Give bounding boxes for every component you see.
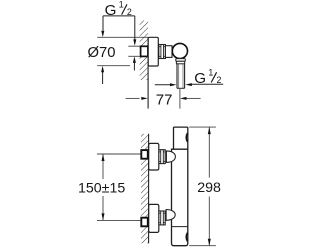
connector between nut and valve (165, 46, 172, 58)
svg-text:1: 1 (119, 0, 124, 9)
extension line square top (128, 45, 140, 47)
arrow up to square bottom (133, 62, 135, 71)
bottom escutcheon (149, 204, 159, 232)
extension line O70 top (97, 36, 148, 38)
flange under circle (176, 59, 186, 62)
O70 bottom arrow (up) (102, 72, 104, 84)
body top cap (174, 127, 188, 149)
svg-text:2: 2 (127, 7, 132, 17)
top escutcheon (149, 143, 159, 170)
bottom connection dome (166, 210, 175, 221)
wall face line (147, 37, 149, 108)
wall face line bottom (148, 134, 150, 244)
G1/2 leader vertical + arrow down to square (134, 16, 136, 40)
wall square connection G1/2 (141, 46, 148, 56)
extension line O70 bottom (97, 65, 130, 67)
G1/2 leader underline top (103, 15, 135, 17)
wall (hatched) top view (140, 21, 149, 81)
77 dimension (126, 97, 140, 99)
valve body circle (172, 43, 187, 58)
body seam bottom (172, 226, 188, 228)
bottom nut (158, 211, 165, 225)
escutcheon (side view) (148, 37, 158, 66)
svg-text:G: G (194, 70, 206, 87)
svg-text:77: 77 (156, 92, 173, 109)
150+-15 dimension (97, 153, 141, 155)
shower outlet pipe (176, 64, 178, 89)
G1/2 right leader + arrows (189, 83, 223, 85)
svg-text:1: 1 (208, 67, 213, 77)
O70 top arrow (down) (102, 16, 104, 31)
svg-text:150±15: 150±15 (78, 180, 125, 196)
extension line square bottom (128, 55, 140, 57)
svg-text:G: G (105, 2, 117, 19)
top nut (158, 150, 165, 164)
top wall square (141, 150, 148, 159)
298 dimension (189, 126, 216, 128)
top connection dome (166, 151, 175, 163)
wall (hatched) bottom view (141, 134, 149, 244)
bottom wall square (141, 218, 148, 227)
svg-text:2: 2 (217, 75, 222, 85)
knob arc top (186, 133, 187, 142)
body main (172, 149, 188, 246)
knob arc bottom (186, 233, 187, 242)
svg-text:298: 298 (197, 180, 221, 196)
svg-text:Ø70: Ø70 (88, 45, 116, 61)
union nut (side view) (159, 45, 166, 59)
